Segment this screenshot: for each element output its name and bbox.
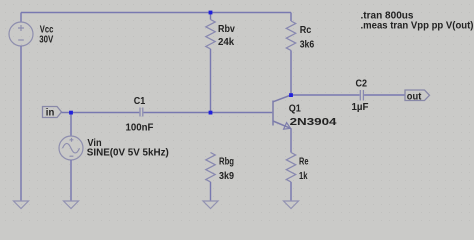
svg-text:1µF: 1µF bbox=[352, 101, 370, 113]
transistor Q1 (NPN) bbox=[273, 95, 291, 129]
wire: C1 to base bbox=[144, 112, 273, 114]
resistor Rbg bbox=[206, 153, 215, 182]
ground (Re) bbox=[284, 201, 299, 209]
port in bbox=[43, 107, 62, 119]
svg-text:Re: Re bbox=[299, 156, 309, 168]
wire: Vcc to top rail bbox=[20, 13, 22, 23]
svg-text:30V: 30V bbox=[39, 34, 53, 46]
wire: Vin to ground bbox=[70, 160, 72, 201]
svg-text:Rbg: Rbg bbox=[219, 156, 234, 168]
wire: C2 to out bbox=[364, 94, 405, 96]
svg-text:C1: C1 bbox=[134, 95, 146, 107]
svg-text:C2: C2 bbox=[356, 78, 368, 90]
junction: collector node bbox=[289, 93, 293, 97]
resistor Rbv bbox=[206, 20, 215, 49]
resistor Rc bbox=[286, 21, 295, 50]
capacitor C1 bbox=[140, 108, 143, 117]
svg-text:24k: 24k bbox=[218, 36, 234, 48]
svg-text:1k: 1k bbox=[299, 170, 308, 182]
svg-text:100nF: 100nF bbox=[126, 121, 154, 133]
svg-text:3k6: 3k6 bbox=[300, 39, 315, 51]
voltage source V1 (Vcc) bbox=[9, 22, 33, 46]
svg-text:2N3904: 2N3904 bbox=[290, 116, 337, 128]
wire: Rbv top lead bbox=[210, 13, 212, 20]
wire: emitter to Re bbox=[290, 128, 292, 152]
junction: base node bbox=[209, 111, 213, 115]
svg-text:SINE(0V 5V 5kHz): SINE(0V 5V 5kHz) bbox=[87, 147, 169, 159]
svg-text:out: out bbox=[407, 90, 422, 102]
svg-text:Rbv: Rbv bbox=[218, 23, 235, 35]
junction: in row / Vin bbox=[69, 111, 73, 115]
wire: Rbv to base node bbox=[210, 49, 212, 113]
svg-text:3k9: 3k9 bbox=[219, 170, 234, 182]
svg-text:in: in bbox=[46, 107, 55, 119]
svg-text:Rc: Rc bbox=[300, 24, 312, 36]
capacitor C2 bbox=[360, 90, 363, 101]
wire: Vcc to ground bbox=[20, 46, 22, 201]
voltage source Vin bbox=[59, 136, 83, 160]
junction: top rail / Rbv bbox=[209, 11, 213, 15]
wire: top rail bbox=[21, 12, 291, 14]
port out bbox=[405, 90, 430, 102]
svg-text:Q1: Q1 bbox=[289, 103, 301, 115]
wire: Rc to collector bbox=[290, 50, 292, 95]
svg-text:.meas tran Vpp pp V(out): .meas tran Vpp pp V(out) bbox=[361, 20, 474, 32]
wire: Re to ground bbox=[290, 182, 292, 201]
wire: Rbg to ground bbox=[210, 182, 212, 201]
wire: top rail to Rc bbox=[290, 13, 292, 22]
wire: Vin top lead bbox=[70, 113, 72, 137]
wire: in to C1 bbox=[62, 112, 140, 114]
ground (Vcc) bbox=[14, 201, 29, 209]
resistor Re bbox=[286, 153, 295, 182]
ground (Vin) bbox=[64, 201, 79, 209]
wire: collector to C2 bbox=[291, 94, 360, 96]
ground (Rbg) bbox=[203, 201, 218, 209]
